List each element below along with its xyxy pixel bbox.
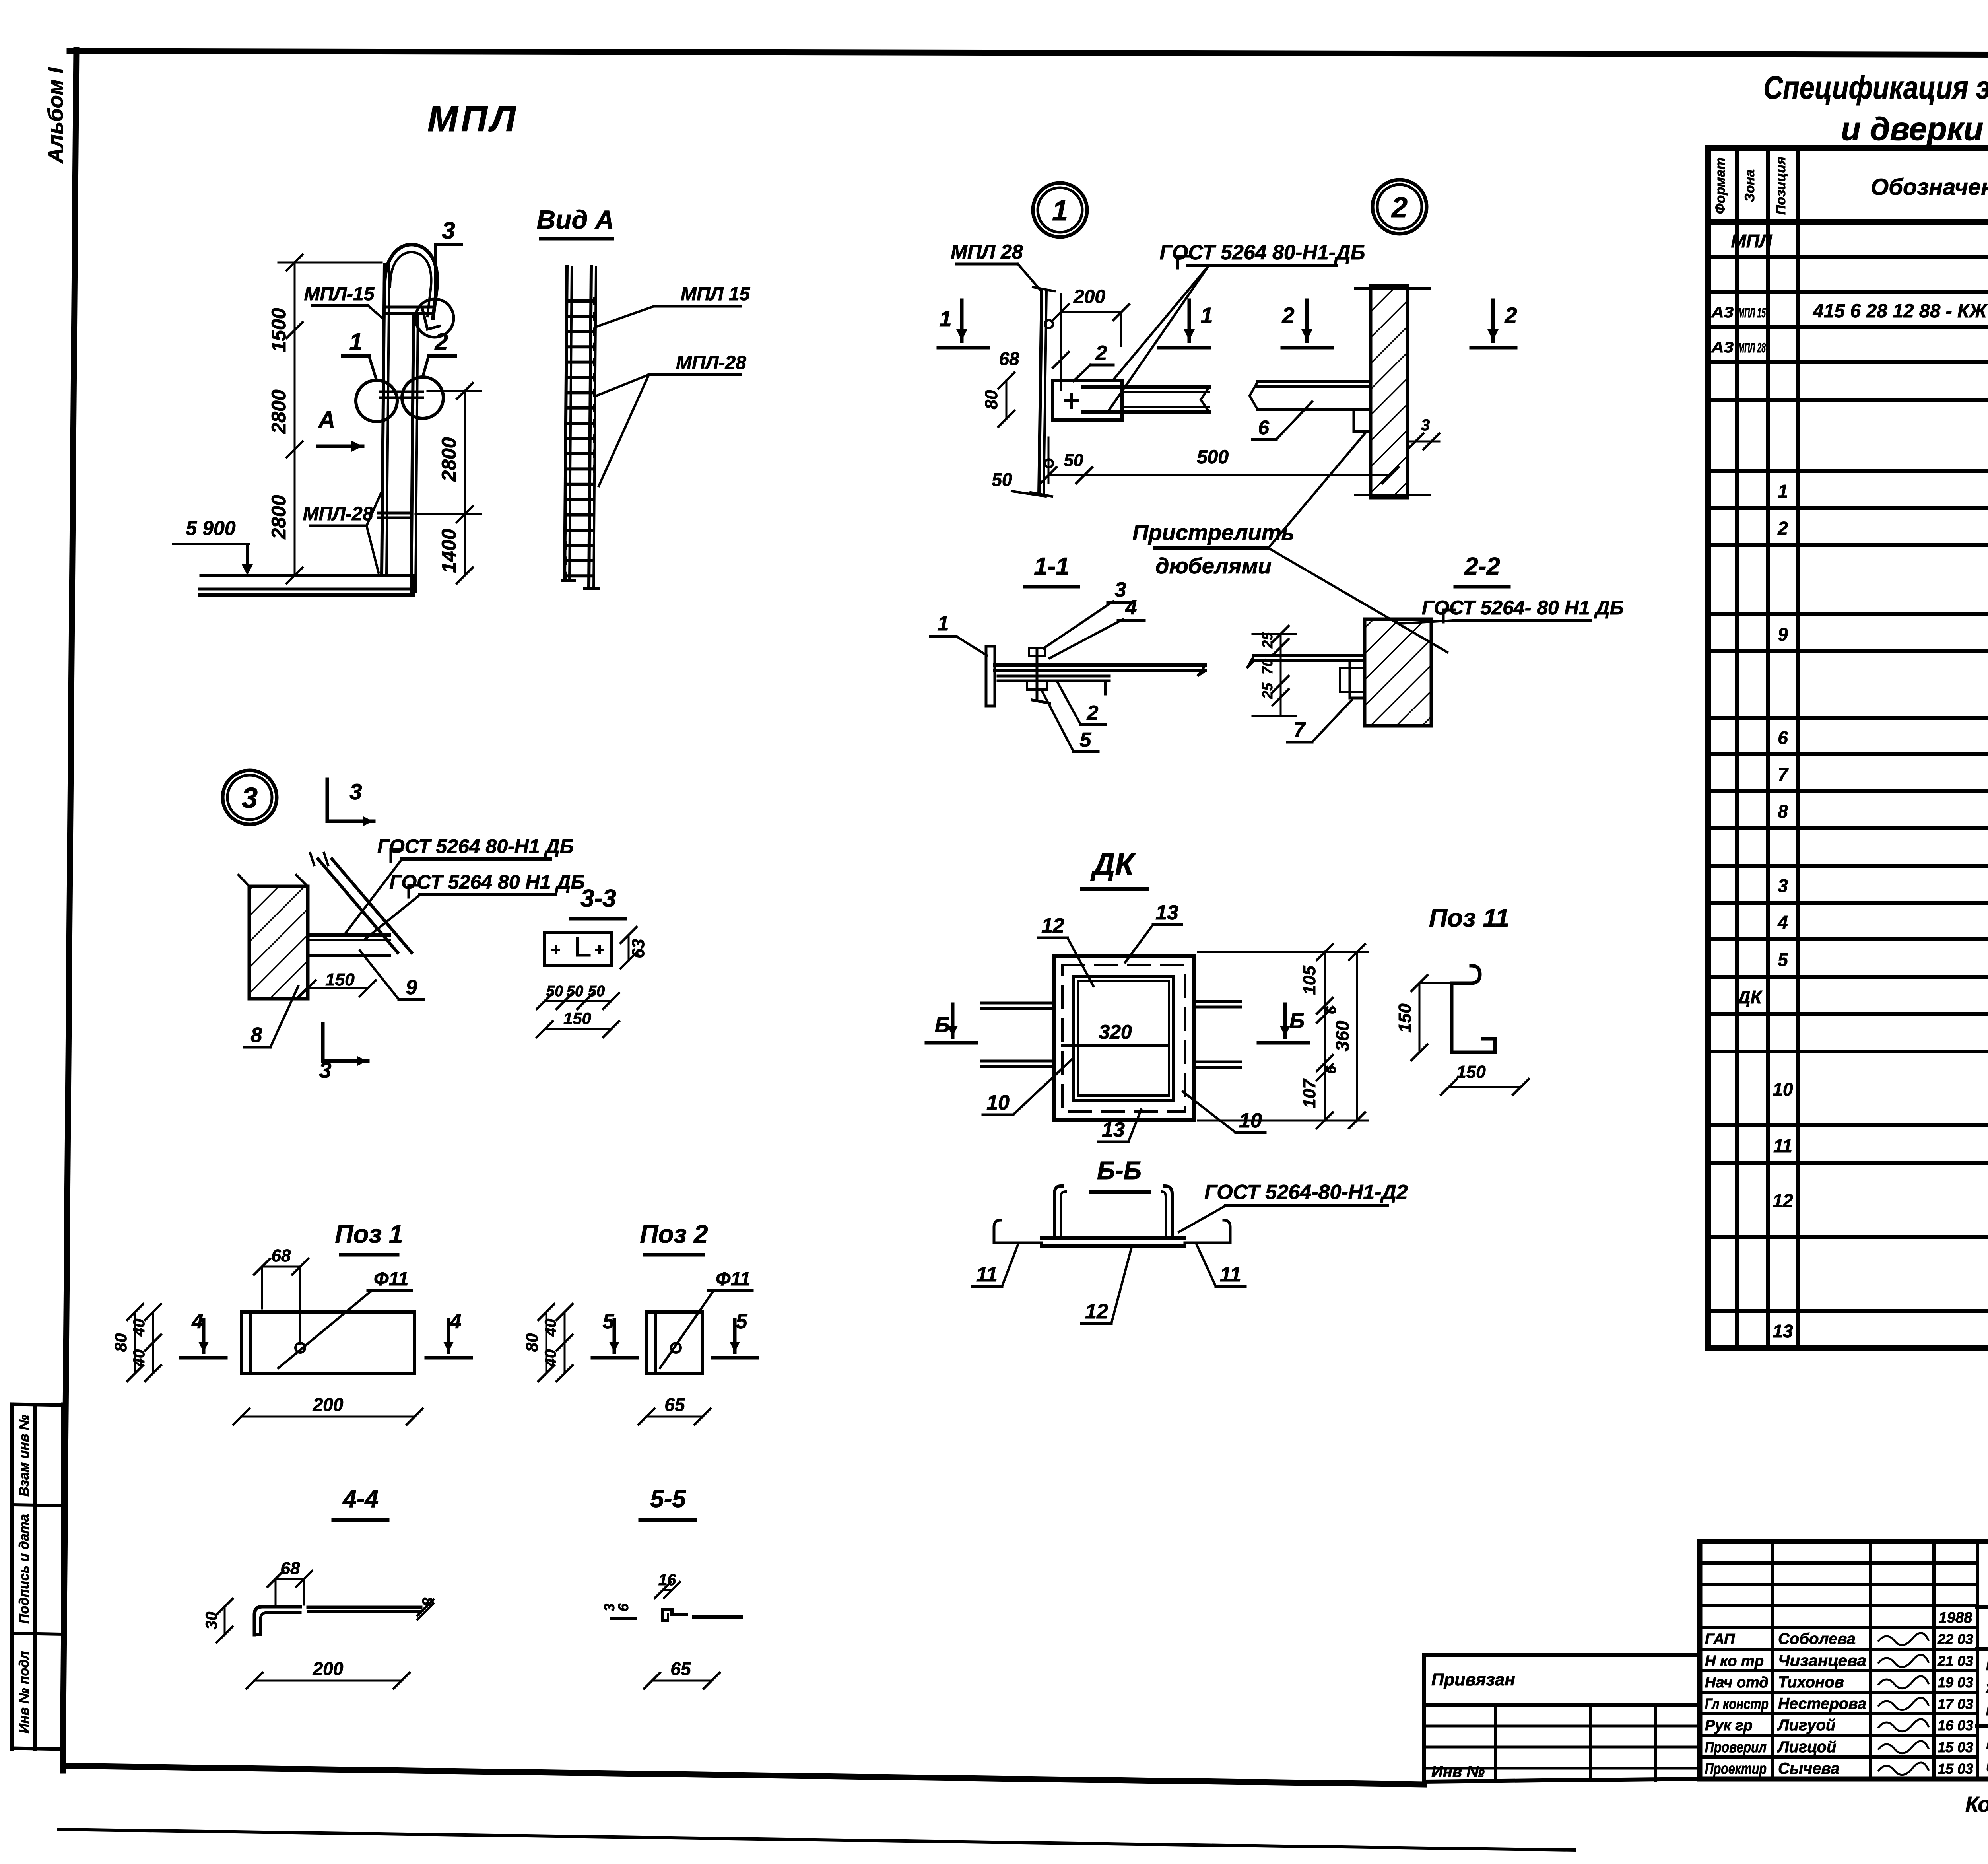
svg-text:2800: 2800 bbox=[268, 495, 290, 539]
svg-text:12: 12 bbox=[1773, 1190, 1793, 1211]
svg-text:2-2: 2-2 bbox=[1464, 553, 1500, 580]
svg-text:200: 200 bbox=[313, 1394, 344, 1415]
svg-text:4: 4 bbox=[450, 1310, 462, 1333]
svg-text:12: 12 bbox=[1085, 1300, 1108, 1323]
svg-text:Ф11: Ф11 bbox=[374, 1269, 408, 1290]
svg-text:Зона: Зона bbox=[1742, 169, 1757, 202]
svg-text:ГОСТ 5264- 80 Н1 ДБ: ГОСТ 5264- 80 Н1 ДБ bbox=[1422, 597, 1624, 619]
svg-text:Сычева: Сычева bbox=[1778, 1760, 1840, 1777]
svg-text:40: 40 bbox=[130, 1349, 148, 1368]
svg-text:8: 8 bbox=[1778, 801, 1788, 822]
svg-text:Проектир: Проектир bbox=[1705, 1761, 1767, 1777]
svg-text:6: 6 bbox=[1258, 416, 1270, 439]
svg-text:жилых помещений (с железобетон: жилых помещений (с железобетонным bbox=[1985, 1678, 1988, 1697]
svg-text:2: 2 bbox=[1281, 303, 1294, 328]
svg-text:А3: А3 bbox=[1711, 339, 1734, 356]
svg-text:80: 80 bbox=[522, 1333, 541, 1352]
svg-text:4-4: 4-4 bbox=[342, 1485, 379, 1513]
svg-text:12: 12 bbox=[1041, 914, 1064, 937]
svg-text:Инв № подл: Инв № подл bbox=[17, 1651, 32, 1733]
svg-text:Ф11: Ф11 bbox=[716, 1269, 750, 1290]
svg-text:107: 107 bbox=[1300, 1078, 1319, 1108]
svg-text:МПЛ 15: МПЛ 15 bbox=[1738, 305, 1766, 321]
svg-text:17 03: 17 03 bbox=[1938, 1696, 1973, 1712]
svg-text:50: 50 bbox=[992, 469, 1012, 490]
svg-text:Копировал Цыганова: Копировал Цыганова bbox=[1965, 1792, 1988, 1816]
svg-text:МПЛ-15: МПЛ-15 bbox=[304, 284, 375, 305]
svg-text:Формат: Формат bbox=[1713, 157, 1728, 214]
svg-text:1: 1 bbox=[1200, 303, 1213, 328]
svg-text:5-5: 5-5 bbox=[650, 1485, 686, 1513]
svg-text:2800: 2800 bbox=[438, 437, 460, 482]
svg-text:21 03: 21 03 bbox=[1937, 1653, 1973, 1669]
svg-text:1: 1 bbox=[939, 306, 951, 331]
svg-text:Проверил: Проверил bbox=[1705, 1739, 1767, 1756]
svg-text:Поз 2: Поз 2 bbox=[640, 1220, 708, 1248]
svg-text:6: 6 bbox=[1778, 727, 1788, 748]
svg-text:65: 65 bbox=[670, 1658, 691, 1679]
svg-text:Б: Б bbox=[935, 1013, 950, 1037]
svg-text:Привязан: Привязан bbox=[1431, 1670, 1515, 1689]
svg-text:Позиция: Позиция bbox=[1773, 157, 1788, 215]
svg-text:40: 40 bbox=[542, 1349, 559, 1368]
svg-text:6: 6 bbox=[615, 1603, 631, 1611]
svg-text:А3: А3 bbox=[1711, 304, 1734, 321]
svg-text:68: 68 bbox=[272, 1246, 291, 1265]
svg-text:3-3: 3-3 bbox=[580, 885, 616, 912]
svg-text:Обозначение: Обозначение bbox=[1871, 174, 1988, 200]
svg-text:9: 9 bbox=[1778, 624, 1788, 645]
svg-text:3: 3 bbox=[1778, 875, 1788, 896]
svg-text:50: 50 bbox=[1064, 451, 1083, 470]
svg-text:68: 68 bbox=[281, 1559, 300, 1578]
svg-text:150: 150 bbox=[563, 1009, 591, 1028]
svg-text:Гл констр: Гл констр bbox=[1705, 1696, 1769, 1712]
svg-text:415 6 28 12 88 - КЖ И-05 02: 415 6 28 12 88 - КЖ И-05 02 bbox=[1813, 301, 1988, 322]
svg-text:6: 6 bbox=[1323, 1065, 1339, 1074]
svg-text:150: 150 bbox=[1395, 1003, 1415, 1033]
svg-text:1: 1 bbox=[1778, 481, 1788, 501]
svg-text:11: 11 bbox=[976, 1263, 998, 1286]
svg-text:МПЛ 28: МПЛ 28 bbox=[951, 241, 1023, 263]
svg-text:ДК: ДК bbox=[1090, 847, 1136, 882]
svg-text:40: 40 bbox=[542, 1319, 559, 1337]
svg-text:3: 3 bbox=[1421, 416, 1430, 434]
svg-text:МПЛ-28: МПЛ-28 bbox=[303, 503, 373, 525]
svg-text:и дверка поливочного крана: и дверка поливочного крана bbox=[1986, 1753, 1988, 1777]
svg-text:Поз 1: Поз 1 bbox=[335, 1220, 403, 1248]
svg-text:МПЛ 28: МПЛ 28 bbox=[1738, 340, 1766, 356]
svg-text:Пожарное депо на 4 автомобиля: Пожарное депо на 4 автомобиля без bbox=[1986, 1655, 1988, 1674]
svg-text:1400: 1400 bbox=[438, 529, 460, 573]
svg-text:Рук гр: Рук гр bbox=[1705, 1717, 1753, 1734]
svg-text:7: 7 bbox=[1778, 764, 1789, 785]
svg-text:40: 40 bbox=[130, 1319, 148, 1337]
svg-text:Лигуой: Лигуой bbox=[1777, 1716, 1835, 1734]
svg-text:5: 5 bbox=[1778, 949, 1788, 970]
svg-text:70: 70 bbox=[1259, 659, 1276, 674]
svg-text:360: 360 bbox=[1332, 1020, 1353, 1051]
svg-text:ГОСТ 5264-80-Н1-Д2: ГОСТ 5264-80-Н1-Д2 bbox=[1204, 1181, 1408, 1204]
svg-text:150: 150 bbox=[325, 970, 355, 989]
svg-text:65: 65 bbox=[664, 1394, 685, 1415]
svg-text:25: 25 bbox=[1259, 682, 1276, 699]
svg-text:4: 4 bbox=[1777, 912, 1788, 933]
svg-text:ГОСТ 5264 80 Н1 ДБ: ГОСТ 5264 80 Н1 ДБ bbox=[389, 871, 585, 893]
svg-text:22 03: 22 03 bbox=[1937, 1631, 1973, 1647]
svg-text:150: 150 bbox=[1456, 1062, 1486, 1082]
svg-text:16 03: 16 03 bbox=[1938, 1717, 1973, 1734]
svg-text:320: 320 bbox=[1099, 1021, 1132, 1043]
svg-text:7: 7 bbox=[1294, 718, 1306, 741]
svg-text:Вид А: Вид А bbox=[537, 205, 614, 234]
svg-text:2: 2 bbox=[1777, 518, 1788, 538]
svg-text:Подпись и дата: Подпись и дата bbox=[17, 1514, 32, 1624]
svg-text:11: 11 bbox=[1220, 1263, 1241, 1286]
svg-text:1988: 1988 bbox=[1939, 1609, 1972, 1626]
svg-text:500: 500 bbox=[1197, 447, 1229, 468]
svg-text:А: А bbox=[318, 407, 335, 433]
svg-text:2: 2 bbox=[1095, 342, 1107, 365]
svg-text:Нестерова: Нестерова bbox=[1778, 1695, 1866, 1712]
svg-text:15 03: 15 03 bbox=[1938, 1739, 1973, 1755]
svg-text:МПЛ-28: МПЛ-28 bbox=[676, 352, 746, 373]
svg-text:13: 13 bbox=[1773, 1321, 1793, 1341]
svg-text:2: 2 bbox=[434, 328, 448, 355]
svg-text:16: 16 bbox=[658, 1571, 676, 1589]
svg-text:МПЛ 15: МПЛ 15 bbox=[681, 284, 751, 305]
svg-text:3: 3 bbox=[1115, 578, 1126, 601]
svg-text:Б-Б: Б-Б bbox=[1097, 1156, 1142, 1185]
svg-text:Взам инв №: Взам инв № bbox=[17, 1415, 32, 1497]
svg-text:6: 6 bbox=[1323, 1006, 1339, 1014]
svg-text:68: 68 bbox=[999, 348, 1019, 369]
svg-text:3: 3 bbox=[442, 217, 455, 244]
svg-text:и дверки: и дверки bbox=[1841, 111, 1983, 147]
svg-text:13: 13 bbox=[1155, 901, 1178, 924]
svg-text:15 03: 15 03 bbox=[1938, 1761, 1973, 1777]
svg-text:Инв №: Инв № bbox=[1431, 1763, 1485, 1780]
svg-text:105: 105 bbox=[1300, 966, 1319, 995]
svg-text:Поз 11: Поз 11 bbox=[1429, 904, 1509, 932]
svg-text:дюбелями: дюбелями bbox=[1155, 553, 1272, 578]
svg-text:200: 200 bbox=[1073, 286, 1105, 307]
svg-text:11: 11 bbox=[1773, 1135, 1792, 1156]
svg-text:80: 80 bbox=[111, 1333, 130, 1352]
svg-text:Чизанцева: Чизанцева bbox=[1778, 1652, 1866, 1670]
svg-text:Тихонов: Тихонов bbox=[1778, 1674, 1844, 1691]
svg-text:1-1: 1-1 bbox=[1034, 553, 1070, 580]
svg-text:5: 5 bbox=[1080, 729, 1092, 752]
svg-text:Пожарная лестница МПЛ: Пожарная лестница МПЛ bbox=[1986, 1731, 1988, 1754]
svg-text:80: 80 bbox=[982, 390, 1001, 409]
svg-text:50: 50 bbox=[588, 983, 605, 1000]
svg-text:ГОСТ 5264 80-Н1-ДБ: ГОСТ 5264 80-Н1-ДБ bbox=[1160, 241, 1365, 264]
svg-text:200: 200 bbox=[313, 1658, 344, 1679]
svg-text:5 900: 5 900 bbox=[186, 517, 235, 539]
svg-text:30: 30 bbox=[203, 1612, 220, 1630]
svg-text:3: 3 bbox=[349, 779, 362, 804]
svg-text:Соболева: Соболева bbox=[1778, 1630, 1856, 1648]
svg-text:1: 1 bbox=[1052, 195, 1068, 227]
svg-text:50: 50 bbox=[567, 983, 583, 1000]
svg-text:Спецификация элементов пожа: Спецификация элементов пожарной лестницы… bbox=[1763, 70, 1988, 106]
svg-text:1: 1 bbox=[938, 612, 949, 635]
svg-text:10: 10 bbox=[986, 1091, 1010, 1114]
svg-text:2: 2 bbox=[1504, 303, 1517, 328]
svg-text:3: 3 bbox=[242, 782, 258, 814]
svg-text:4: 4 bbox=[1125, 596, 1137, 619]
svg-text:2: 2 bbox=[1391, 192, 1408, 224]
svg-text:50: 50 bbox=[546, 983, 563, 1000]
svg-text:МПЛ: МПЛ bbox=[427, 99, 519, 139]
svg-text:каркасом и панельными стенами): каркасом и панельными стенами) bbox=[1986, 1700, 1988, 1719]
svg-text:10: 10 bbox=[1773, 1079, 1793, 1100]
svg-text:63: 63 bbox=[629, 939, 648, 958]
svg-text:Лигцой: Лигцой bbox=[1777, 1738, 1836, 1756]
svg-text:1: 1 bbox=[349, 328, 362, 355]
svg-text:9: 9 bbox=[406, 976, 417, 999]
svg-text:ГАП: ГАП bbox=[1705, 1631, 1735, 1648]
svg-text:4: 4 bbox=[192, 1310, 204, 1333]
svg-text:2: 2 bbox=[1087, 702, 1099, 725]
svg-text:1500: 1500 bbox=[268, 308, 290, 352]
svg-text:Альбом I: Альбом I bbox=[44, 67, 68, 164]
svg-text:Б: Б bbox=[1289, 1009, 1305, 1033]
svg-text:ДК: ДК bbox=[1736, 987, 1763, 1007]
svg-text:ГОСТ 5264 80-Н1 ДБ: ГОСТ 5264 80-Н1 ДБ bbox=[377, 835, 574, 857]
svg-text:Пристрелить: Пристрелить bbox=[1132, 520, 1295, 545]
svg-text:МПЛ: МПЛ bbox=[1731, 231, 1772, 251]
svg-text:2800: 2800 bbox=[268, 389, 290, 434]
svg-text:19 03: 19 03 bbox=[1938, 1674, 1973, 1691]
svg-text:13: 13 bbox=[1102, 1118, 1125, 1141]
svg-text:Н ко тр: Н ко тр bbox=[1705, 1653, 1764, 1670]
svg-text:Нач отд: Нач отд bbox=[1705, 1674, 1769, 1691]
svg-text:8: 8 bbox=[251, 1024, 262, 1047]
svg-text:5: 5 bbox=[736, 1310, 748, 1333]
